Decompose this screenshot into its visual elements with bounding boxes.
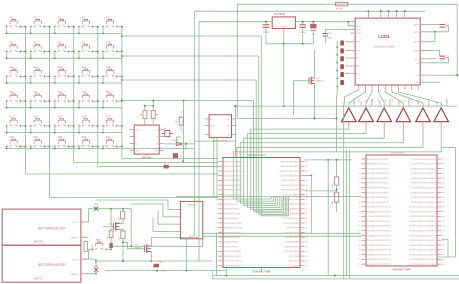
svg-text:CS1: CS1	[356, 73, 360, 75]
svg-text:R5: R5	[140, 115, 142, 117]
svg-text:2: 2	[216, 166, 217, 168]
switch S25	[102, 119, 118, 128]
svg-text:IC1 78L05: IC1 78L05	[274, 14, 285, 16]
wire	[111, 228, 142, 249]
wire	[237, 4, 315, 119]
svg-text:R6: R6	[156, 115, 158, 117]
svg-text:(PCINT11/ADC3/OC3A)PJ3: (PCINT11/ADC3/OC3A)PJ3	[411, 172, 437, 175]
svg-text:ANODE: ANODE	[446, 98, 449, 106]
svg-text:(PCINT16/ADC8/OC0A)PJ0: (PCINT16/ADC8/OC0A)PJ0	[411, 196, 437, 199]
svg-text:15: 15	[216, 227, 218, 229]
svg-text:S14: S14	[82, 66, 87, 69]
switch S36	[91, 242, 107, 251]
resistor R4	[109, 231, 113, 238]
LED Q3	[162, 130, 173, 136]
switch S11	[5, 69, 21, 78]
svg-text:(OC3B/INT4)PE4: (OC3B/INT4)PE4	[283, 217, 299, 220]
wire	[89, 237, 112, 259]
microcontroller IC2	[223, 158, 300, 268]
wire	[266, 27, 313, 107]
svg-text:ANODE: ANODE	[408, 98, 411, 106]
svg-text:BS170: BS170	[135, 247, 142, 249]
svg-text:PH6(ADC14/PCINT14/T2): PH6(ADC14/PCINT14/T2)	[367, 225, 391, 228]
fuse F1	[84, 241, 87, 251]
svg-text:37: 37	[306, 204, 308, 206]
wire	[74, 27, 219, 163]
switch S13	[54, 69, 70, 78]
svg-text:28: 28	[443, 245, 445, 247]
svg-text:12: 12	[359, 211, 361, 213]
svg-text:S22: S22	[34, 116, 39, 119]
wire	[158, 211, 176, 224]
svg-text:PB6(MISO/PCINT6): PB6(MISO/PCINT6)	[224, 228, 242, 230]
svg-text:10: 10	[359, 202, 361, 204]
svg-text:PH0(ADC0/PCINT0/T0): PH0(ADC0/PCINT0/T0)	[367, 158, 389, 161]
resistor R3	[121, 231, 125, 238]
svg-text:S19: S19	[82, 91, 87, 94]
svg-text:S20: S20	[106, 91, 111, 94]
svg-text:(RXD1/INT2)PD2: (RXD1/INT2)PD2	[283, 246, 299, 248]
LCD LCD1	[355, 18, 420, 85]
capacitor C5	[173, 153, 178, 158]
svg-text:(PCINT10/ADC2/OC2A)PJ2: (PCINT10/ADC2/OC2A)PJ2	[411, 167, 437, 170]
svg-text:BATT2: BATT2	[34, 239, 43, 243]
svg-text:EA DOGL128-6: EA DOGL128-6	[374, 45, 394, 49]
wire	[345, 90, 442, 108]
svg-text:7: 7	[359, 187, 360, 189]
svg-text:15: 15	[359, 226, 361, 228]
svg-text:(PCINT21/ADC13/OC1A)PJ5: (PCINT21/ADC13/OC1A)PJ5	[409, 220, 436, 223]
resistor R14	[340, 56, 344, 61]
wire	[456, 4, 458, 75]
wire	[96, 200, 176, 210]
switch S15	[102, 69, 118, 78]
svg-text:5: 5	[216, 180, 217, 182]
capacitor C8	[310, 24, 316, 29]
svg-text:35: 35	[306, 213, 308, 215]
switch S6	[5, 44, 21, 53]
wire	[176, 137, 186, 150]
svg-text:R10: R10	[332, 184, 334, 187]
supply symbol GND	[94, 268, 98, 272]
svg-text:13: 13	[359, 216, 361, 218]
svg-text:(SCL/INT0)PD0: (SCL/INT0)PD0	[285, 237, 300, 239]
wire	[5, 126, 122, 134]
svg-text:S11: S11	[9, 66, 14, 69]
resistor R13	[340, 48, 344, 53]
svg-text:PH2(ADC18/PCINT18/T2): PH2(ADC18/PCINT18/T2)	[367, 244, 391, 247]
svg-text:R3: R3	[118, 238, 120, 240]
battery holder BATT1	[2, 245, 81, 282]
svg-text:S23: S23	[58, 116, 63, 119]
svg-text:BS170: BS170	[316, 81, 323, 83]
wire	[337, 41, 350, 96]
driver U4	[396, 108, 411, 122]
svg-text:33: 33	[306, 223, 308, 225]
switch S16	[5, 94, 21, 103]
wire	[203, 233, 361, 236]
switch S28	[54, 139, 70, 148]
wire	[5, 146, 195, 149]
driver U3	[377, 108, 392, 122]
svg-text:PH1(ADC9/PCINT9/T1): PH1(ADC9/PCINT9/T1)	[367, 201, 389, 204]
svg-text:PB7(SCK/PCINT7): PB7(SCK/PCINT7)	[224, 232, 241, 234]
svg-text:20: 20	[359, 250, 361, 252]
svg-text:26: 26	[306, 256, 308, 258]
wire	[89, 259, 98, 275]
svg-text:PC2(TCK/PCINT10): PC2(TCK/PCINT10)	[224, 261, 242, 263]
svg-text:VLCD: VLCD	[414, 59, 420, 61]
svg-text:ANODE: ANODE	[370, 98, 373, 106]
svg-text:(PCINT22/ADC14/OC2A)PJ6: (PCINT22/ADC14/OC2A)PJ6	[409, 225, 436, 228]
wire	[193, 11, 195, 237]
svg-text:(ICP3/INT7)PE7: (ICP3/INT7)PE7	[284, 232, 299, 234]
svg-text:PB2(AIN0/INT2): PB2(AIN0/INT2)	[224, 208, 239, 211]
svg-text:MYAVRSCT-8MP: MYAVRSCT-8MP	[393, 268, 411, 271]
svg-text:(SDA/INT1)PD1: (SDA/INT1)PD1	[284, 241, 299, 244]
switch S26	[5, 139, 21, 148]
svg-text:(PCINT12/ADC4/OC0A)PJ4: (PCINT12/ADC4/OC0A)PJ4	[411, 177, 437, 180]
svg-text:PH4(ADC4/PCINT4/T0): PH4(ADC4/PCINT4/T0)	[367, 177, 389, 180]
svg-text:IRF9540: IRF9540	[103, 225, 112, 228]
svg-text:(PCINT23/ADC15/OC3A)PJ7: (PCINT23/ADC15/OC3A)PJ7	[409, 230, 436, 233]
svg-text:3: 3	[359, 168, 360, 170]
svg-text:VDD: VDD	[94, 204, 99, 206]
switch S2	[30, 20, 46, 29]
wire	[367, 10, 405, 13]
svg-text:18: 18	[359, 240, 361, 242]
resistor R10	[335, 177, 339, 185]
switch S22	[30, 119, 46, 128]
svg-text:(TMS/PCINT13)PF5: (TMS/PCINT13)PF5	[281, 185, 300, 187]
wire	[293, 50, 314, 118]
svg-text:27: 27	[443, 250, 445, 252]
wire	[213, 271, 459, 279]
svg-text:PB5(MOSI/PCINT5): PB5(MOSI/PCINT5)	[224, 223, 242, 225]
wire	[233, 95, 441, 158]
wire	[164, 143, 195, 145]
svg-text:29: 29	[443, 240, 445, 242]
svg-text:LCD1: LCD1	[378, 34, 390, 39]
svg-text:(TDO/PCINT14)PF6: (TDO/PCINT14)PF6	[281, 189, 300, 192]
wire	[181, 100, 184, 162]
svg-text:38: 38	[306, 199, 308, 201]
wire	[89, 208, 132, 222]
svg-text:(ADC0/PCINT8)PF0: (ADC0/PCINT8)PF0	[281, 160, 300, 163]
svg-text:32: 32	[306, 227, 308, 229]
wire	[122, 27, 218, 159]
svg-text:PC0(SCL/PCINT8): PC0(SCL/PCINT8)	[224, 251, 241, 253]
svg-text:C22: C22	[159, 262, 162, 264]
svg-text:PH5(ADC21/PCINT21/T1): PH5(ADC21/PCINT21/T1)	[367, 258, 391, 261]
svg-text:(OC3A/AIN1)PE3: (OC3A/AIN1)PE3	[283, 212, 300, 215]
svg-text:36: 36	[306, 209, 308, 211]
resistor R7	[179, 117, 183, 125]
svg-text:(PCINT26/ADC18/OC2A)PJ2: (PCINT26/ADC18/OC2A)PJ2	[409, 244, 436, 247]
capacitor C10	[323, 29, 356, 43]
svg-text:(PCINT30/ADC22/OC2A)PJ6: (PCINT30/ADC22/OC2A)PJ6	[409, 263, 436, 266]
svg-text:(TCK/PCINT12)PF4: (TCK/PCINT12)PF4	[281, 179, 300, 182]
svg-text:PH6(ADC22/PCINT22/T2): PH6(ADC22/PCINT22/T2)	[367, 263, 391, 266]
wire	[5, 101, 122, 109]
svg-text:2: 2	[359, 163, 360, 165]
switch S30	[102, 139, 118, 148]
svg-text:23: 23	[359, 264, 361, 266]
wire	[153, 218, 176, 231]
svg-text:(ICP1)PD4: (ICP1)PD4	[289, 255, 300, 258]
wire	[26, 27, 219, 174]
svg-text:8: 8	[359, 192, 360, 194]
switch S1	[5, 20, 21, 29]
wire	[96, 241, 212, 262]
svg-text:PH1(ADC1/PCINT1/T1): PH1(ADC1/PCINT1/T1)	[367, 163, 389, 166]
svg-text:PC1(SDA/PCINT9): PC1(SDA/PCINT9)	[224, 255, 241, 258]
svg-text:8: 8	[216, 194, 217, 196]
svg-text:(PCINT17/ADC9/OC1A)PJ1: (PCINT17/ADC9/OC1A)PJ1	[411, 201, 437, 204]
svg-text:PH2(ADC2/PCINT2/T2): PH2(ADC2/PCINT2/T2)	[367, 167, 389, 170]
switch S27	[30, 139, 46, 148]
svg-text:R1 100: R1 100	[336, 9, 342, 11]
svg-text:27: 27	[306, 251, 308, 253]
resistor R17	[340, 80, 344, 85]
svg-text:PH7(ADC15/PCINT15/T3): PH7(ADC15/PCINT15/T3)	[367, 230, 391, 233]
wire	[5, 76, 122, 84]
resistor R12	[340, 41, 344, 46]
capacitor C1	[440, 25, 445, 28]
svg-text:MINUS: MINUS	[71, 274, 79, 276]
svg-text:PH3(ADC3/PCINT3/T3): PH3(ADC3/PCINT3/T3)	[367, 172, 389, 175]
resistor R11	[335, 192, 339, 202]
wire	[214, 137, 217, 200]
svg-text:19: 19	[359, 245, 361, 247]
switch S3	[54, 20, 70, 29]
svg-text:S16: S16	[9, 91, 14, 94]
LED D3	[109, 243, 112, 248]
svg-text:BATT1: BATT1	[34, 277, 43, 281]
connector TOUCH1	[180, 201, 202, 238]
svg-text:PH4(ADC12/PCINT12/T0): PH4(ADC12/PCINT12/T0)	[367, 215, 391, 218]
svg-text:A2: A2	[228, 133, 230, 136]
wire	[194, 140, 235, 142]
svg-text:PH2(ADC10/PCINT10/T2): PH2(ADC10/PCINT10/T2)	[367, 206, 391, 209]
svg-text:(TXD0/PCINT1)PE1: (TXD0/PCINT1)PE1	[281, 204, 300, 206]
svg-text:16: 16	[359, 230, 361, 232]
IC IC3	[134, 125, 159, 154]
svg-text:29: 29	[306, 242, 308, 244]
transistor Q1	[113, 222, 119, 230]
svg-text:C10: C10	[328, 33, 331, 35]
resistor R1	[336, 3, 348, 6]
svg-text:1: 1	[216, 161, 217, 163]
svg-text:Q2: Q2	[164, 128, 167, 130]
svg-text:PA1(ADC1/PCINT1): PA1(ADC1/PCINT1)	[224, 165, 243, 168]
svg-text:11: 11	[216, 209, 218, 211]
svg-text:(T1)PD6: (T1)PD6	[291, 265, 299, 267]
svg-text:PH0(ADC16/PCINT16/T0): PH0(ADC16/PCINT16/T0)	[367, 234, 391, 237]
svg-text:S30: S30	[106, 136, 111, 139]
svg-text:GM-1457: GM-1457	[142, 157, 152, 160]
svg-text:37: 37	[443, 202, 445, 204]
switch S5	[102, 20, 118, 29]
driver U2	[359, 108, 374, 122]
svg-text:36: 36	[443, 207, 445, 209]
svg-text:9: 9	[359, 197, 360, 199]
svg-text:VSS2: VSS2	[414, 82, 419, 84]
svg-text:38: 38	[443, 197, 445, 199]
svg-text:X1: X1	[156, 137, 158, 139]
svg-text:(PCINT25/ADC17/OC1A)PJ1: (PCINT25/ADC17/OC1A)PJ1	[409, 239, 436, 242]
switch S4	[78, 20, 94, 29]
wire	[425, 25, 458, 83]
switch S9	[78, 44, 94, 53]
svg-text:25: 25	[443, 259, 445, 261]
svg-text:S18: S18	[58, 91, 63, 94]
svg-text:31: 31	[306, 232, 308, 234]
svg-text:PLUS: PLUS	[72, 222, 78, 224]
svg-text:S13: S13	[58, 66, 63, 69]
wire	[347, 21, 355, 26]
svg-text:PH6(ADC6/PCINT6/T2): PH6(ADC6/PCINT6/T2)	[367, 186, 389, 189]
svg-text:22: 22	[359, 259, 361, 261]
wire	[98, 27, 219, 167]
wire	[121, 35, 261, 158]
svg-text:PLUS: PLUS	[72, 259, 78, 261]
svg-text:R11: R11	[332, 201, 334, 204]
svg-text:R2: R2	[118, 218, 120, 220]
wire	[437, 148, 455, 257]
wire	[140, 166, 218, 168]
svg-text:100nF: 100nF	[263, 32, 269, 34]
resistor R5	[143, 111, 147, 119]
svg-text:PH5(ADC13/PCINT13/T1): PH5(ADC13/PCINT13/T1)	[367, 220, 391, 223]
svg-text:CAP1N: CAP1N	[413, 31, 420, 34]
svg-text:S15: S15	[106, 66, 111, 69]
svg-text:XTAL1(TOSC1): XTAL1(TOSC1)	[224, 245, 238, 248]
svg-text:5: 5	[359, 178, 360, 180]
switch S14	[78, 69, 94, 78]
svg-text:S26: S26	[9, 136, 14, 139]
wire	[213, 275, 459, 277]
svg-text:BATTERIEHALTER: BATTERIEHALTER	[38, 227, 66, 231]
svg-text:PH1(ADC17/PCINT17/T1): PH1(ADC17/PCINT17/T1)	[367, 239, 391, 242]
svg-text:100nF: 100nF	[161, 271, 167, 273]
svg-text:30: 30	[306, 237, 308, 239]
resistor R16	[340, 72, 344, 77]
svg-text:PA0(ADC0/PCINT0): PA0(ADC0/PCINT0)	[224, 160, 243, 163]
svg-text:S29: S29	[82, 136, 87, 139]
svg-text:(XCK1)PD5: (XCK1)PD5	[288, 261, 299, 263]
svg-text:28: 28	[306, 246, 308, 248]
svg-text:GND: GND	[282, 26, 287, 28]
svg-text:17: 17	[359, 235, 361, 237]
svg-text:(ADC2/PCINT10)PF2: (ADC2/PCINT10)PF2	[280, 170, 300, 173]
svg-text:GND: GND	[94, 266, 99, 268]
oscillator QG1	[209, 115, 231, 138]
svg-text:(RXD0/PCINT0)PE0: (RXD0/PCINT0)PE0	[281, 199, 300, 201]
wire	[305, 106, 352, 279]
svg-text:S25: S25	[106, 116, 111, 119]
switch S21	[5, 119, 21, 128]
svg-text:32: 32	[443, 226, 445, 228]
svg-text:S21: S21	[9, 116, 14, 119]
wire	[105, 239, 226, 272]
svg-text:35: 35	[443, 211, 445, 213]
wire	[237, 3, 457, 5]
svg-text:ANODE: ANODE	[389, 98, 392, 106]
svg-text:PA7(ADC7/PCINT7): PA7(ADC7/PCINT7)	[224, 193, 243, 196]
resistor R8	[164, 165, 169, 169]
battery holder BATT2	[2, 209, 81, 245]
svg-text:(PCINT18/ADC10/OC2A)PJ2: (PCINT18/ADC10/OC2A)PJ2	[409, 206, 436, 209]
svg-text:(ADC3/PCINT11)PF3: (ADC3/PCINT11)PF3	[280, 174, 300, 177]
svg-text:(PCINT19/ADC11/OC3A)PJ3: (PCINT19/ADC11/OC3A)PJ3	[410, 210, 437, 213]
wire	[121, 55, 259, 158]
wire	[194, 10, 425, 12]
wire	[226, 268, 261, 276]
svg-text:12: 12	[216, 213, 218, 215]
svg-text:(OC3C/INT5)PE5: (OC3C/INT5)PE5	[283, 223, 299, 225]
svg-text:RESET/PCINT14: RESET/PCINT14	[224, 236, 240, 239]
switch S23	[54, 119, 70, 128]
wire	[233, 158, 288, 216]
svg-text:39: 39	[443, 192, 445, 194]
switch S20	[102, 94, 118, 103]
driver U5	[416, 108, 431, 122]
wire	[5, 52, 122, 60]
svg-text:(PCINT15/ADC7/OC3A)PJ7: (PCINT15/ADC7/OC3A)PJ7	[411, 191, 437, 194]
svg-text:PH5(ADC5/PCINT5/T1): PH5(ADC5/PCINT5/T1)	[367, 182, 389, 185]
svg-text:3: 3	[181, 224, 182, 226]
svg-text:LL4148: LL4148	[171, 139, 179, 142]
voltage regulator IC1	[272, 17, 295, 29]
resistor R6	[151, 111, 155, 119]
driver U1	[342, 108, 357, 122]
svg-text:(PCINT24/ADC16/OC0A)PJ0: (PCINT24/ADC16/OC0A)PJ0	[409, 234, 436, 237]
svg-text:R7: R7	[175, 122, 177, 124]
resistor R15	[340, 64, 344, 69]
svg-text:S10: S10	[106, 41, 111, 44]
svg-text:S27: S27	[34, 136, 39, 139]
svg-text:9: 9	[216, 199, 217, 201]
wire	[216, 233, 218, 275]
junction dots	[25, 26, 123, 148]
resistor R2	[121, 211, 125, 219]
wire	[176, 196, 361, 198]
capacitor C7	[300, 25, 306, 28]
svg-text:(PCINT14/ADC6/OC2A)PJ6: (PCINT14/ADC6/OC2A)PJ6	[411, 186, 437, 189]
svg-text:X2: X2	[156, 144, 158, 146]
switch S18	[54, 94, 70, 103]
svg-text:6: 6	[216, 185, 217, 187]
svg-text:S12: S12	[34, 66, 39, 69]
svg-text:(PCINT8/ADC0/OC0A)PJ0: (PCINT8/ADC0/OC0A)PJ0	[412, 158, 437, 161]
svg-text:PA2(ADC2/PCINT2): PA2(ADC2/PCINT2)	[224, 170, 243, 173]
svg-text:S28: S28	[58, 136, 63, 139]
svg-text:S17: S17	[34, 91, 39, 94]
svg-text:(PCINT13/ADC5/OC1A)PJ5: (PCINT13/ADC5/OC1A)PJ5	[411, 182, 437, 185]
svg-text:(PCINT20/ADC12/OC0A)PJ4: (PCINT20/ADC12/OC0A)PJ4	[409, 215, 436, 218]
wire	[5, 27, 122, 35]
transistor T1	[144, 245, 151, 253]
switch S19	[78, 94, 94, 103]
svg-text:(ADC1/PCINT9)PF1: (ADC1/PCINT9)PF1	[281, 165, 300, 168]
svg-text:XTAL2(TOSC2): XTAL2(TOSC2)	[224, 241, 238, 244]
svg-text:21: 21	[359, 254, 361, 256]
svg-text:13: 13	[216, 218, 218, 220]
svg-text:R8: R8	[164, 163, 166, 165]
wire	[198, 22, 200, 261]
svg-text:11: 11	[359, 207, 361, 209]
